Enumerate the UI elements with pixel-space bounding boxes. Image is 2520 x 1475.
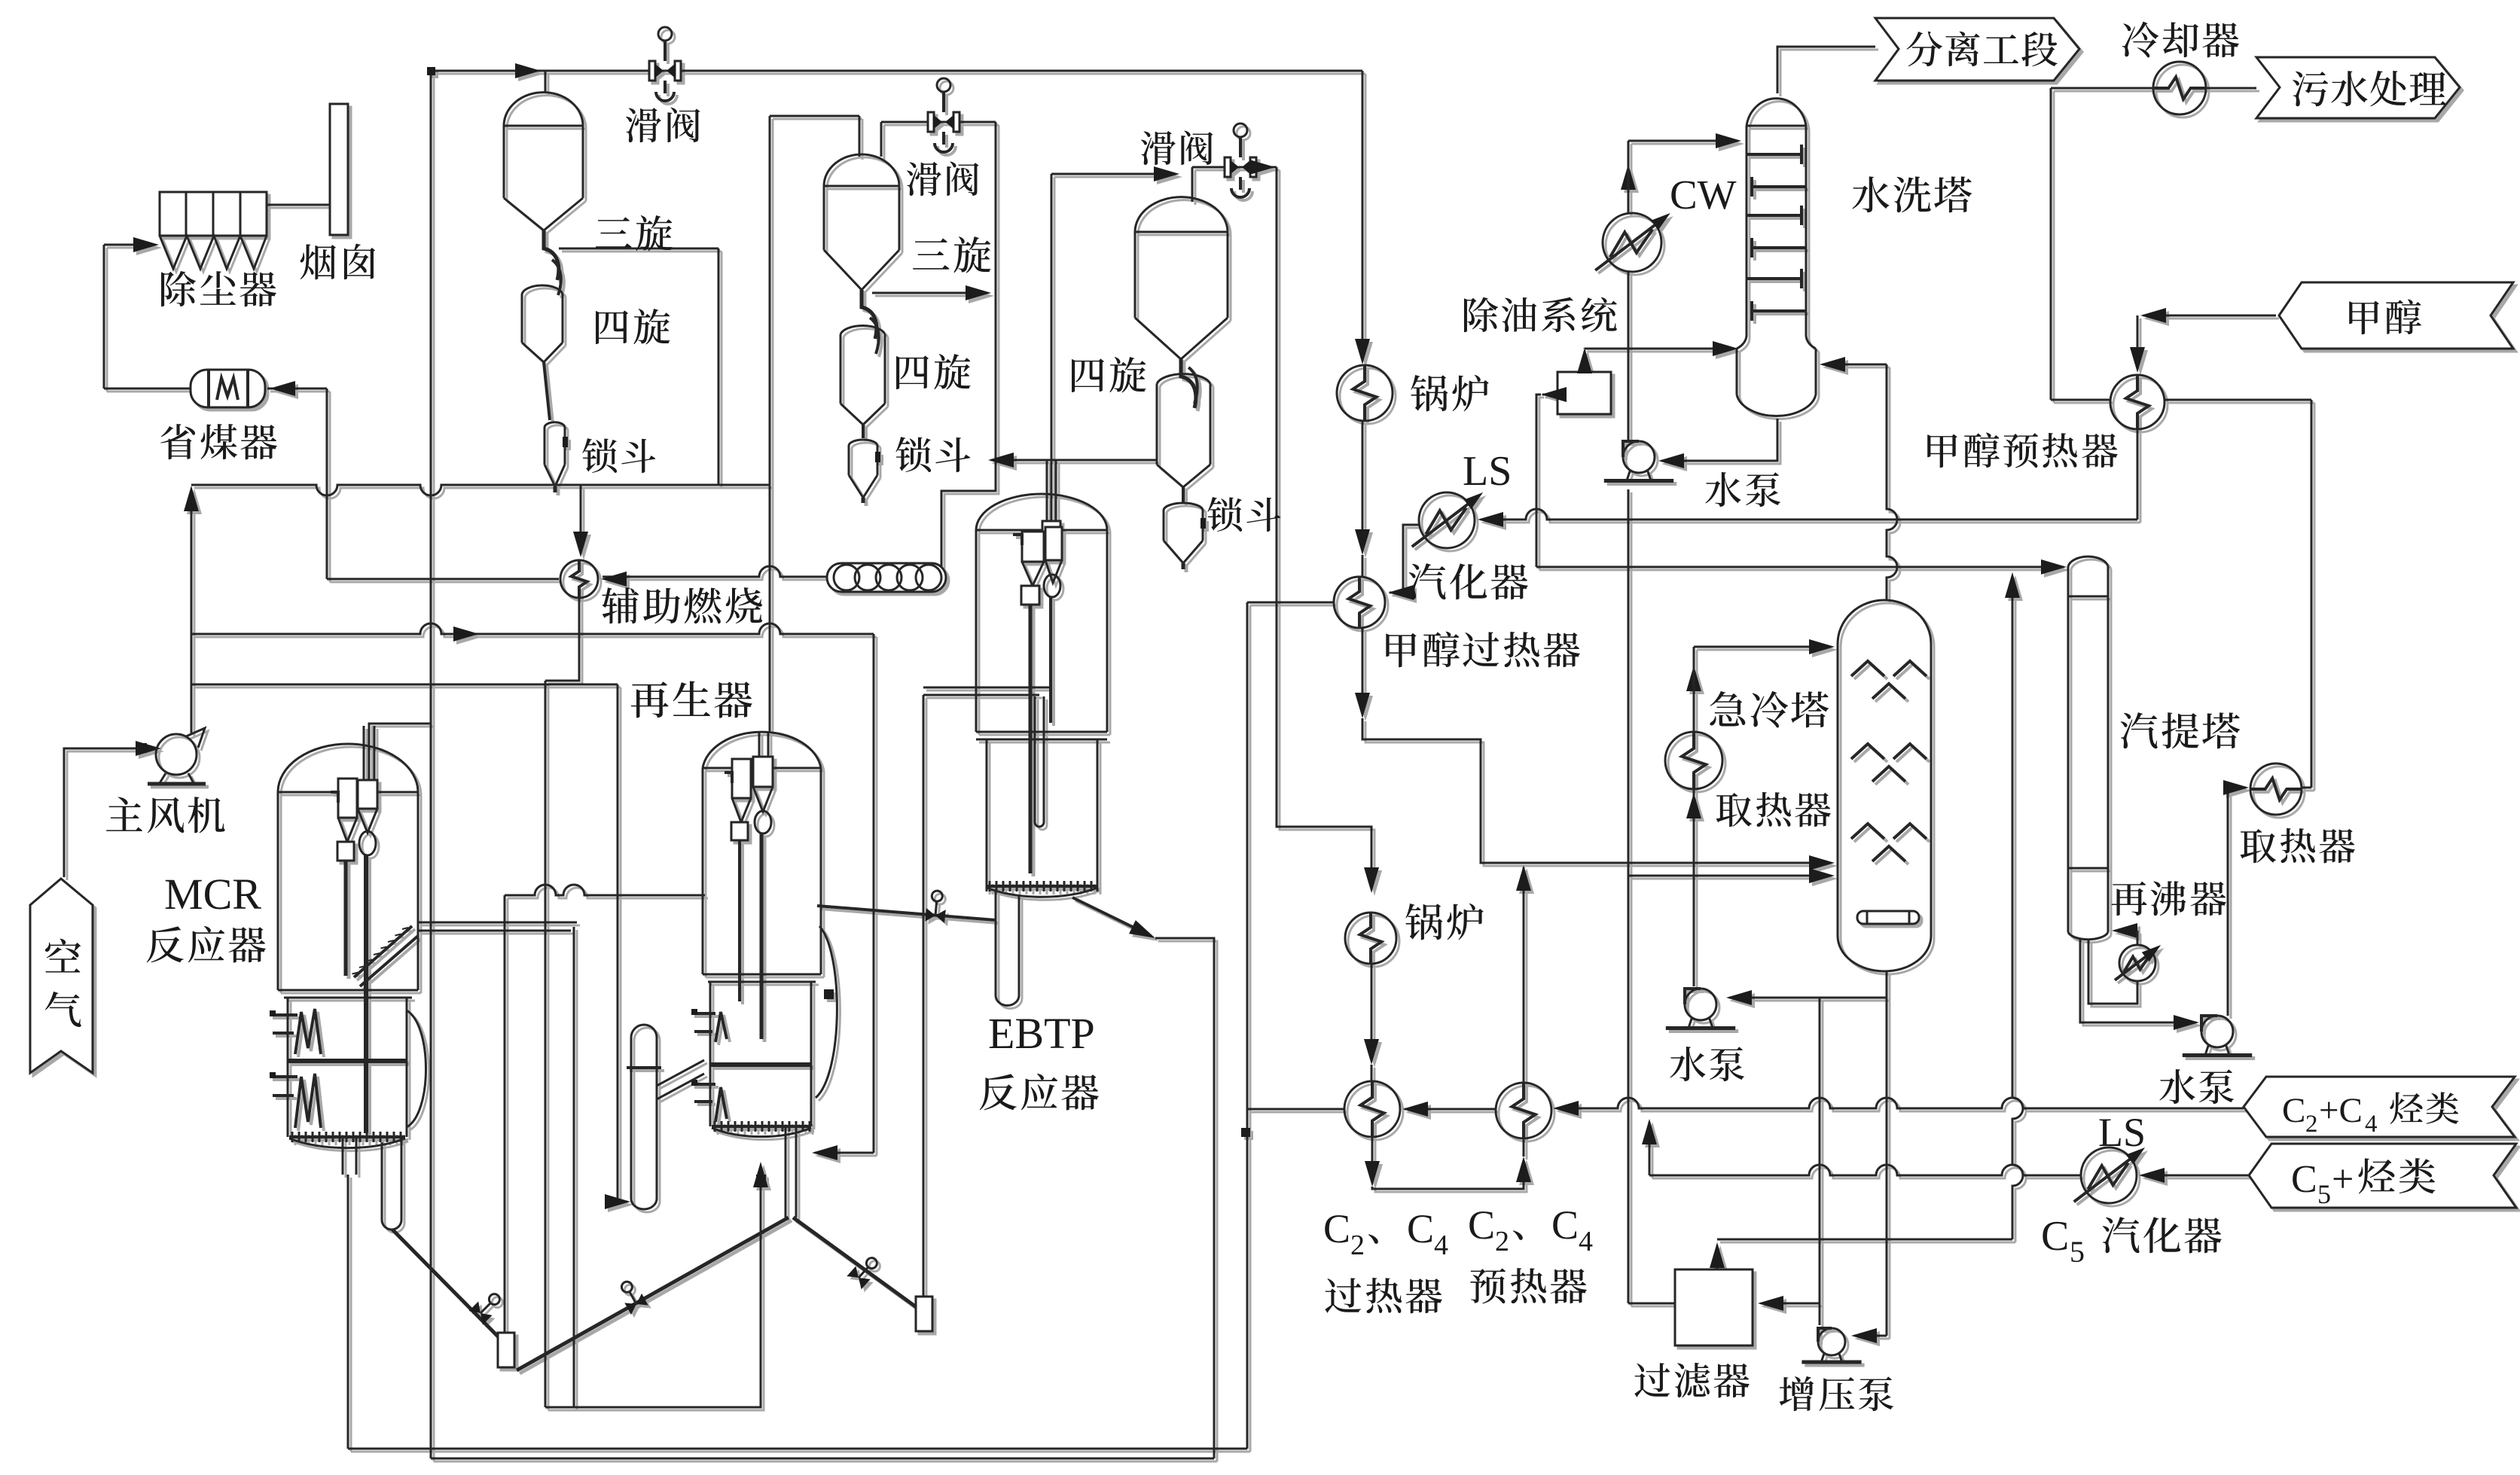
- wire air header y842 to regenerator: [191, 623, 874, 634]
- wire blower discharge riser: [191, 491, 193, 734]
- svg-text:C: C: [1323, 1206, 1350, 1251]
- pump wash water 水泵: [1623, 441, 1655, 473]
- label 四旋 no.3: [1072, 358, 1104, 392]
- wire flue gas into economizer: [267, 388, 327, 390]
- vessel quaternary cyclone 四旋 no.1: [522, 285, 563, 295]
- label 水泵 no.1: [1705, 472, 1741, 507]
- nozzle MCR right side to downleg: [418, 922, 577, 924]
- svg-text:4: 4: [1434, 1230, 1448, 1261]
- packing chevrons quench tower: [1851, 661, 1884, 676]
- oil removal box 除油系统: [1557, 372, 1611, 414]
- wire EBTP bottoms diagonal outlet: [1072, 897, 1151, 936]
- wire regenerator overhead riser x1022: [769, 116, 771, 733]
- svg-text:LS: LS: [2098, 1110, 2146, 1155]
- nozzle EBTP left side: [923, 687, 1049, 689]
- sparger quench tower: [1857, 911, 1919, 924]
- valve slide-valve no.2 滑阀: [928, 112, 959, 132]
- label 四旋 no.2: [896, 355, 929, 389]
- label 滑阀 no.3: [1141, 131, 1176, 165]
- wire 四旋1 gas outlet to flue header: [559, 248, 718, 250]
- heat-exchanger cooler 冷却器: [2153, 62, 2206, 114]
- wire boiler1 to methanol superheater: [1362, 421, 1364, 550]
- trays wash tower: [1747, 153, 1802, 156]
- wire quench side leg x2416: [1819, 998, 1821, 1239]
- banner air inlet 空气: [30, 879, 93, 1073]
- cyclone internals MCR plenum and riser: [358, 780, 377, 809]
- pipe end spent catalyst standpipe: [498, 1333, 514, 1367]
- wire main flue-gas top header y94: [431, 70, 1362, 72]
- wire EBTP overhead down to boiler no.2: [1277, 167, 1371, 889]
- baffle box MCR stripping section lower: [295, 1074, 321, 1128]
- svg-text:+C: +C: [2319, 1091, 2363, 1130]
- label 分离工段: [1906, 32, 1942, 67]
- wire wash tower bottoms to pump: [1661, 419, 1777, 461]
- vessel tertiary cyclone 三旋 no.3: [1135, 197, 1228, 232]
- wire blower air header y644 with jumps: [191, 485, 770, 495]
- svg-text:4: 4: [2365, 1111, 2378, 1138]
- pipe end EBTP catalyst inlet: [916, 1297, 932, 1331]
- svg-text:2: 2: [2305, 1111, 2318, 1138]
- wire long vertical x572 top header to bottom line: [430, 71, 432, 1458]
- wire 四旋1 to 锁斗1: [544, 362, 550, 420]
- label 空气 vertical: [45, 939, 81, 973]
- bottom dish regenerator: [712, 1128, 811, 1137]
- wire booster outlet up to filter line: [1819, 1239, 1821, 1325]
- wire air branch down to aux-burner heat exchanger: [580, 485, 582, 553]
- distributor grid MCR: [289, 1135, 405, 1138]
- vessel wash tower 水洗塔: [1747, 99, 1806, 126]
- wire second bottom header: [431, 1458, 1214, 1460]
- wire MCR overhead riser to tertiary cyclone no.1: [369, 724, 431, 783]
- wire spent-gas down-leg x724 to regenerator bottom U: [545, 681, 547, 1407]
- label 三旋 no.1: [596, 217, 632, 247]
- wire MCR feed bottom line: [348, 1448, 1247, 1450]
- bottom dish MCR: [289, 1138, 405, 1148]
- label 水洗塔: [1852, 176, 1889, 212]
- label 水泵 no.3: [2159, 1069, 2195, 1104]
- wire air down to regenerator bottom: [873, 634, 875, 1153]
- svg-text:C: C: [1407, 1206, 1434, 1251]
- svg-text:2: 2: [1350, 1230, 1365, 1261]
- wire oil-system water to quench tower: [1628, 875, 1830, 877]
- label 锅炉 no.2: [1405, 904, 1442, 940]
- svg-text:CW: CW: [1670, 172, 1737, 218]
- banner C5+ hydrocarbons feed: [2249, 1144, 2516, 1208]
- label 滑阀 no.1: [626, 108, 661, 142]
- vessel quaternary cyclone 四旋 no.3: [1157, 374, 1210, 384]
- label 污水处理: [2293, 72, 2328, 107]
- wire filter outlet up to stripper riser: [1716, 1245, 1719, 1269]
- pump quench circulation 水泵: [1685, 989, 1716, 1020]
- wire 四旋2 gas outlet: [872, 292, 987, 294]
- cyclone internals regenerator no.1: [753, 757, 773, 787]
- label 水泵 no.2: [1670, 1047, 1705, 1081]
- dipleg hook 三旋1 to 四旋1: [544, 230, 559, 280]
- wire reboiler return into stripper: [2115, 930, 2137, 932]
- wire pump to heat remover: [1693, 790, 1695, 986]
- wire quench overhead to wash tower: [1887, 364, 1897, 600]
- standpipe regenerator bottom: [785, 1126, 787, 1217]
- wire wash tower overhead to separation: [1777, 47, 1875, 93]
- wire EBTP riser x1396 down into reactor plenum: [1051, 174, 1053, 524]
- svg-text:C: C: [1468, 1202, 1495, 1248]
- svg-text:C: C: [2291, 1158, 2317, 1201]
- wire CW vertical down to filter: [1628, 272, 1630, 274]
- wire methanol feed to preheater: [2143, 315, 2276, 317]
- wire air header y909 to catalyst-cooler leg: [191, 684, 618, 686]
- wire wash water line through methanol preheater: [2051, 399, 2110, 401]
- wire pump up to heat remover 2: [2227, 788, 2229, 1016]
- heat-exchanger C2C4 superheater 过热器: [1344, 1081, 1400, 1137]
- label 甲醇: [2349, 301, 2379, 335]
- heat-exchanger C2C4 preheater 预热器: [1496, 1083, 1551, 1138]
- wire methanol superheater outlet to MCR feed loop: [1247, 602, 1334, 604]
- banner methanol feed 甲醇: [2279, 282, 2513, 349]
- vessel regenerator 再生器 shell: [703, 732, 821, 768]
- wire regenerated catalyst diagonal left with valve: [517, 1217, 789, 1370]
- heat-exchanger aux-combustion 辅助燃烧: [560, 560, 598, 598]
- wire methanol from preheater into vaporizer y690: [1481, 509, 2137, 520]
- label 锁斗 no.3: [1207, 497, 1242, 532]
- wire regenerated catalyst diagonal right with valve: [793, 1217, 920, 1310]
- label 滑阀 no.2: [907, 162, 941, 196]
- vessel chimney 烟囱: [330, 104, 348, 235]
- valve slide-valve no.3 滑阀: [1225, 157, 1256, 177]
- label 再沸器: [2112, 882, 2147, 916]
- heat-exchanger C5 vaporizer: [2081, 1147, 2137, 1203]
- wire dust-collector to chimney: [267, 204, 330, 206]
- heat-exchanger quench heat remover 取热器: [1665, 732, 1722, 789]
- svg-text:EBTP: EBTP: [988, 1009, 1095, 1058]
- wire quench bottoms down leg: [1886, 971, 1888, 1336]
- wire EBTP side standpipe x1226: [923, 695, 925, 1297]
- bellows expansion joint: [827, 563, 946, 592]
- pump stripper bottoms 水泵: [2201, 1016, 2233, 1047]
- svg-text:LS: LS: [1463, 448, 1512, 495]
- wire stripper bottoms to pump: [2080, 940, 2196, 1022]
- wire 四旋2 to 锁斗2: [862, 425, 865, 438]
- wire 三旋2 stub to slide valve no.2: [880, 122, 883, 157]
- filter box 过滤器: [1675, 1269, 1753, 1345]
- vessel quaternary cyclone 四旋 no.2: [841, 326, 885, 334]
- vessel economizer 省煤器: [191, 370, 265, 407]
- dipleg hook 三旋3 to 四旋3: [1181, 359, 1196, 408]
- vessel tertiary cyclone 三旋 no.2: [824, 154, 899, 186]
- wire bellows line into aux-burner: [603, 566, 941, 577]
- wire spent catalyst riser x670 to regenerator: [504, 895, 506, 1333]
- wire stripper feed riser x2672: [2012, 577, 2023, 1239]
- wire EBTP bottoms to MCR feed loop: [1155, 938, 1214, 1458]
- wire economizer loop to dust collector: [103, 245, 105, 389]
- svg-text:4: 4: [1579, 1226, 1593, 1257]
- distributor grid regenerator: [712, 1125, 811, 1128]
- heat-exchanger LS vaporizer 汽化器: [1419, 492, 1475, 548]
- cyclone internals EBTP no.1: [1022, 532, 1044, 562]
- wire feed arrow into 三旋3: [1051, 173, 1175, 175]
- wire catalyst transfer regenerator to EBTP: [817, 906, 996, 920]
- wire quench bottoms to booster pump: [1854, 1335, 1887, 1337]
- wire quench bottoms to pump: [1729, 997, 1887, 999]
- steam nozzle MCR lower: [273, 1075, 297, 1078]
- label 汽化器: [1409, 563, 1446, 599]
- dipleg hook 三旋2 to 四旋2: [862, 290, 877, 339]
- heat-exchanger stripper heat remover 取热器: [2250, 763, 2302, 815]
- vessel EBTP reactor shell: [976, 494, 1107, 530]
- wire aux-burner outlet down: [545, 598, 579, 681]
- valve slide-valve no.1 滑阀: [649, 61, 681, 81]
- steam nozzles regenerator: [694, 1012, 715, 1015]
- label 除油系统: [1464, 297, 1498, 332]
- label 锁斗 no.1: [582, 438, 617, 473]
- label 取热器 no.2: [2241, 829, 2276, 863]
- label 三旋 no.2: [913, 239, 950, 270]
- cyclone internals regenerator no.2: [732, 759, 751, 798]
- wire methanol preheater bottom out: [2137, 429, 2139, 520]
- vessel quench tower 急冷塔: [1838, 600, 1931, 644]
- heat-exchanger CW cooler: [1603, 213, 1661, 272]
- wire C5 feed into vaporizer: [2142, 1175, 2249, 1177]
- wire quench circulation to tower top: [1694, 646, 1830, 648]
- label 甲醇过热器: [1386, 633, 1416, 667]
- label 除尘器: [161, 271, 196, 306]
- wire effluent U between exchangers: [1371, 1137, 1374, 1182]
- wire 三旋2 overhead stub to regen riser: [859, 116, 861, 157]
- wire MCR spent catalyst diagonal with valve: [392, 1230, 503, 1342]
- vessel dust-collector 除尘器: [160, 192, 267, 236]
- steam nozzle MCR upper: [273, 1013, 297, 1016]
- banner separation section 分离工段: [1875, 18, 2079, 81]
- label 增压泵: [1780, 1376, 1814, 1411]
- heat-exchanger reboiler 再沸器: [2119, 945, 2155, 981]
- banner sewage treatment 污水处理: [2256, 57, 2460, 118]
- svg-text:5: 5: [2070, 1235, 2085, 1269]
- wire 三旋3 stub to slide valve no.3: [1191, 167, 1194, 202]
- wire air to blower: [64, 748, 136, 877]
- wire between C2C4 exchangers: [1405, 1108, 1496, 1111]
- vessel lock hopper 锁斗 no.2: [849, 440, 877, 446]
- wire oil box top to wash tower: [1584, 351, 1586, 372]
- wire C2C4 superheater outlet to junction: [1247, 1108, 1344, 1111]
- vessel tertiary cyclone 三旋 no.1: [504, 93, 583, 126]
- distributor grid EBTP: [987, 885, 1097, 888]
- pump main-blower 主风机: [156, 734, 197, 775]
- cyclone internals EBTP no.2: [1045, 527, 1062, 560]
- wire slide valve no.2 down to bellows: [941, 122, 996, 575]
- label 甲醇预热器: [1927, 434, 1957, 468]
- label 取热器 no.1: [1716, 793, 1752, 827]
- bottom dish EBTP: [987, 888, 1097, 897]
- wire top header down to boiler no.1: [1362, 71, 1364, 360]
- wire preheater top to quench feed line: [1523, 867, 1525, 1083]
- wire pump up through CW cooler to tower top: [1628, 273, 1630, 440]
- heat-exchanger boiler no.2 锅炉: [1345, 913, 1396, 964]
- wire MCR nozzle downleg x762 to U loop: [573, 927, 575, 1407]
- wire U line to regenerator bottom dish: [545, 1167, 761, 1407]
- bulge MCR lower right wall: [407, 1010, 426, 1127]
- svg-text:5: 5: [2317, 1179, 2331, 1209]
- label 省煤器: [160, 424, 195, 459]
- heat-exchanger methanol preheater 甲醇预热器: [2110, 375, 2165, 429]
- wire 四旋3 to 锁斗3: [1182, 487, 1185, 503]
- label 急冷塔: [1710, 691, 1745, 727]
- label 汽提塔: [2121, 712, 2158, 748]
- svg-text:2: 2: [1495, 1226, 1509, 1257]
- baffle box MCR stripping section upper: [288, 1059, 407, 1063]
- wire preheater loop to cooler to sewage: [2050, 88, 2052, 400]
- svg-text:MCR: MCR: [164, 870, 261, 919]
- svg-text:C: C: [2282, 1091, 2305, 1130]
- label 锁斗 no.2: [895, 437, 931, 472]
- label 锅炉 no.1: [1411, 375, 1448, 411]
- banner C2+C4 hydrocarbons feed: [2244, 1077, 2515, 1137]
- wire 三旋1 inlet stub: [545, 71, 547, 93]
- standpipe MCR bottom: [342, 1137, 344, 1175]
- cyclone internals MCR secondary: [338, 779, 357, 818]
- label 再生器: [631, 681, 669, 718]
- heat-exchanger methanol superheater 甲醇过热器: [1334, 577, 1385, 628]
- cyclone internals EBTP plenum: [1042, 521, 1060, 532]
- label 冷却器: [2122, 22, 2158, 58]
- svg-text:C: C: [2041, 1213, 2069, 1260]
- vessel lock hopper 锁斗 no.1: [545, 422, 565, 428]
- wire 四旋3 outlet to EBTP wall: [991, 459, 1157, 462]
- wire filter feed from oil header: [1628, 1303, 1675, 1305]
- vessel MCR reactor shell: [278, 744, 418, 792]
- label 主风机: [106, 797, 142, 831]
- label 四旋 no.1: [596, 310, 628, 344]
- svg-text:C: C: [1551, 1202, 1579, 1248]
- wire boiler2 to C2C4 superheater: [1371, 964, 1373, 1060]
- side tube MCR withdrawal: [381, 1142, 383, 1220]
- wire vaporizer to superheater: [1390, 525, 1419, 593]
- vessel lock hopper 锁斗 no.3: [1164, 503, 1203, 510]
- wire superheated methanol to quench tower: [1362, 628, 1364, 714]
- wire booster branch to filter: [1761, 1303, 1820, 1305]
- wire oil box bottoms to stripper feed: [1542, 394, 1557, 396]
- wire heat remover 2 to methanol preheater line: [2302, 787, 2311, 789]
- wire stripper bottoms to reboiler: [2088, 940, 2137, 1004]
- wire MCR feed riser x464: [347, 1175, 349, 1449]
- svg-text:+: +: [2332, 1158, 2354, 1201]
- label 烟囱: [301, 244, 336, 279]
- vessel stripper 汽提塔: [2068, 556, 2108, 566]
- wire cooler tube diagonals to regenerator: [657, 1060, 704, 1086]
- wire C2C4 feed line y1472: [1556, 1098, 2244, 1108]
- wire C5 vapor to feed junction: [1649, 1165, 2081, 1175]
- riser diagonal MCR internal: [354, 926, 412, 977]
- wire catalyst cooler air leg x820: [617, 684, 619, 1202]
- external catalyst cooler tube: [631, 1025, 657, 1209]
- label 辅助燃烧: [602, 587, 639, 623]
- pump booster 增压泵: [1818, 1328, 1845, 1355]
- heat-exchanger boiler no.1 锅炉: [1337, 365, 1393, 421]
- regenerator right wall bulge: [816, 926, 837, 1098]
- wire economizer down to aux-burner: [326, 389, 328, 579]
- label 过滤器: [1634, 1363, 1670, 1397]
- skirt tube EBTP: [995, 891, 997, 995]
- bed level line regenerator: [710, 1062, 811, 1067]
